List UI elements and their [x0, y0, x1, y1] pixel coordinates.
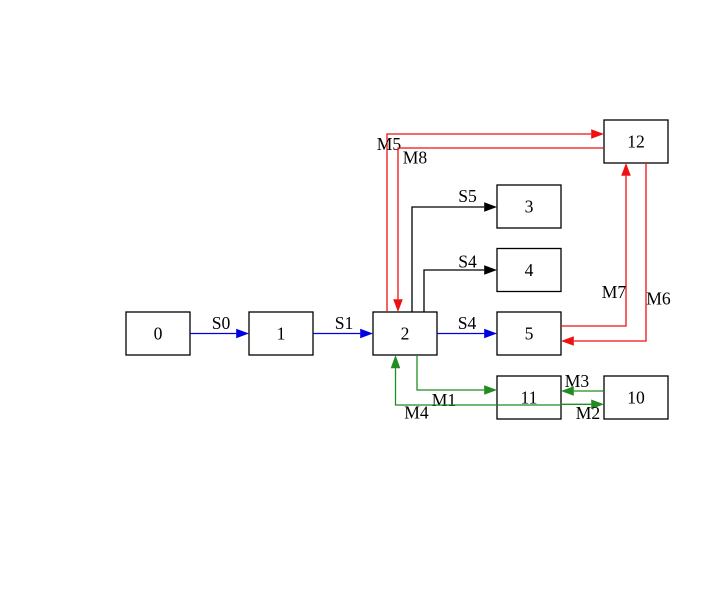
- svg-text:M3: M3: [565, 371, 590, 391]
- svg-text:M7: M7: [602, 282, 627, 302]
- svg-text:2: 2: [401, 324, 410, 344]
- edge M3: 10 -> 11 (green): [561, 371, 604, 396]
- edge S4: 2 -> 5 (blue): [437, 313, 497, 338]
- edge S5: 2 -> 3 (black): [412, 186, 497, 312]
- node 5: [497, 312, 561, 355]
- edge S0: 0 -> 1 (blue): [190, 313, 249, 338]
- svg-text:S4: S4: [458, 252, 477, 272]
- svg-text:S0: S0: [212, 313, 231, 333]
- svg-text:0: 0: [154, 324, 163, 344]
- edge M6: 12 -> 5 (red): [561, 163, 671, 346]
- edge M8: 12 -> 2 (red): [393, 148, 604, 313]
- svg-text:4: 4: [525, 260, 534, 280]
- node 4: [497, 249, 561, 292]
- node 10: [604, 376, 668, 419]
- svg-text:3: 3: [525, 197, 534, 217]
- svg-text:S4: S4: [458, 313, 477, 333]
- svg-text:M2: M2: [576, 403, 600, 423]
- svg-text:M4: M4: [404, 403, 429, 423]
- node 11: [497, 376, 561, 419]
- node 3: [497, 185, 561, 228]
- node 2: [373, 312, 437, 355]
- node 0: [126, 312, 190, 355]
- svg-text:M1: M1: [432, 390, 456, 410]
- node 1: [249, 312, 313, 355]
- svg-text:S5: S5: [458, 186, 477, 206]
- svg-text:12: 12: [627, 132, 645, 152]
- svg-text:5: 5: [525, 324, 534, 344]
- svg-text:1: 1: [277, 324, 286, 344]
- edge M2: 11 -> 10 (green): [561, 400, 604, 424]
- node 12: [604, 120, 668, 163]
- edge S1: 1 -> 2 (blue): [313, 313, 373, 338]
- svg-text:10: 10: [627, 388, 645, 408]
- svg-text:S1: S1: [335, 313, 354, 333]
- edge M1: 2 -> 11 (green): [417, 355, 497, 410]
- edge M4: 11 -> 2 (green): [391, 355, 561, 423]
- svg-text:M6: M6: [646, 289, 671, 309]
- edge S4: 2 -> 4 (black): [424, 252, 497, 313]
- svg-text:M8: M8: [403, 148, 428, 168]
- edge M5: 2 -> 12 (red): [377, 129, 604, 312]
- edge M7: 5 -> 12 (red): [561, 163, 631, 326]
